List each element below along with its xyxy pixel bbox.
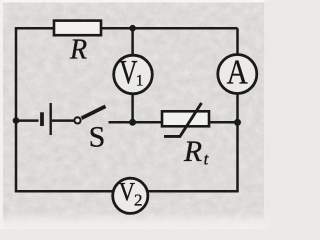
- junction dot: middle (V1 bottom): [129, 119, 136, 126]
- svg-text:2: 2: [134, 191, 143, 210]
- thermistor Rt foot: [164, 135, 181, 138]
- wire: top horizontal: [15, 27, 238, 30]
- battery: long thin plate: [50, 103, 52, 135]
- thermistor Rt box: [162, 111, 209, 126]
- wire: battery to switch: [52, 119, 75, 122]
- svg-text:S: S: [89, 121, 106, 154]
- wire: left vertical: [15, 28, 18, 191]
- wire: right vertical: [236, 28, 239, 191]
- switch S: pivot circle: [74, 117, 80, 123]
- junction dot: left middle: [13, 117, 20, 124]
- ammeter A: [218, 55, 257, 94]
- svg-text:R: R: [183, 136, 202, 168]
- wire: battery left lead: [16, 119, 39, 122]
- wire: switch to Rt and right junction: [109, 121, 238, 124]
- resistor R box: [54, 21, 101, 36]
- voltmeter V1: [114, 55, 153, 94]
- svg-text:V: V: [119, 178, 135, 207]
- voltmeter V2: [113, 178, 148, 213]
- battery: short thick plate: [40, 112, 44, 126]
- svg-text:A: A: [227, 52, 248, 91]
- svg-text:R: R: [69, 35, 87, 66]
- switch S: blade: [82, 106, 106, 118]
- wire: V1 branch vertical: [131, 28, 134, 122]
- wire: bottom horizontal: [15, 190, 239, 193]
- svg-text:1: 1: [136, 73, 144, 90]
- junction dot: right middle: [234, 119, 241, 126]
- junction dot: top (V1 tap): [129, 25, 136, 32]
- thermistor Rt slash: [180, 103, 202, 136]
